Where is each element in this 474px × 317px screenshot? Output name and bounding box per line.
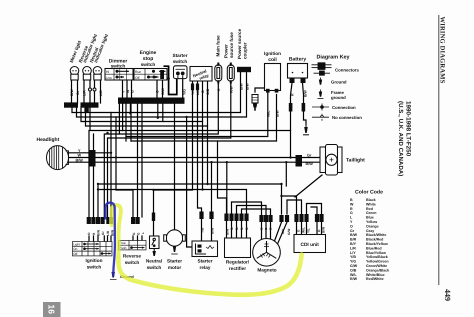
svg-text:WIRING DIAGRAMS: WIRING DIAGRAMS <box>439 17 446 84</box>
battery <box>288 57 308 112</box>
svg-text:L/B: L/B <box>106 230 110 236</box>
wire: starter relay left feed <box>187 117 192 247</box>
wire: neutral relay pin3 to bus H3 <box>202 81 204 190</box>
svg-text:Starter: Starter <box>172 53 187 58</box>
svg-text:R/W: R/W <box>350 277 358 281</box>
reverse switch terminals <box>131 217 140 224</box>
wire: reverse indicator leads <box>84 80 90 103</box>
engine stop switch <box>134 50 167 80</box>
wire: neutral switch lead <box>153 190 155 236</box>
wire: bus H3 <box>81 107 203 122</box>
svg-text:B/R: B/R <box>350 238 357 242</box>
svg-text:Y/B: Y/B <box>200 227 204 233</box>
svg-text:Gray: Gray <box>366 229 374 233</box>
reverse switch table <box>119 241 147 250</box>
power source fuse <box>227 63 234 84</box>
starter motor <box>164 230 186 254</box>
wire: ignition pin verticals <box>89 131 98 218</box>
neutral relay <box>190 67 212 82</box>
ignition coil <box>264 51 281 93</box>
svg-text:Black/Yellow: Black/Yellow <box>366 242 388 246</box>
svg-text:Ignition: Ignition <box>264 51 281 56</box>
svg-text:G: G <box>350 211 353 215</box>
main thick bus bar <box>118 98 185 104</box>
wire: magneto right pin to CDI 2 <box>287 200 302 214</box>
svg-text:Blue/Yellow: Blue/Yellow <box>366 251 386 255</box>
svg-text:Yellow: Yellow <box>366 220 377 224</box>
connector circles on leads <box>89 88 92 91</box>
wire: regulator-magneto nest 4 <box>242 209 271 215</box>
svg-text:Power source: Power source <box>237 28 242 59</box>
key no connection symbol <box>312 114 329 121</box>
svg-text:CDI unit: CDI unit <box>301 242 320 248</box>
svg-text:switch: switch <box>87 265 102 270</box>
wire: regulator stubs <box>227 221 247 238</box>
blue pen stroke <box>106 203 115 277</box>
svg-text:B/W: B/W <box>321 227 325 233</box>
svg-text:Power: Power <box>224 44 229 58</box>
svg-text:switch: switch <box>111 64 126 69</box>
svg-text:(U.S., U.K. AND CANADA): (U.S., U.K. AND CANADA) <box>397 101 404 176</box>
svg-text:B/W: B/W <box>210 228 214 234</box>
svg-text:Color Code: Color Code <box>355 190 383 196</box>
svg-text:Run: Run <box>135 70 141 74</box>
svg-text:B/W: B/W <box>304 90 308 98</box>
svg-text:W: W <box>78 154 82 158</box>
svg-text:Black/White: Black/White <box>366 233 386 237</box>
svg-text:coil: coil <box>268 57 277 63</box>
grey page tab 16 <box>43 302 61 317</box>
wire: regulator-magneto nest 2 <box>232 202 262 215</box>
power source coupler <box>237 67 251 72</box>
wire: ignition switch stubs to table <box>89 236 111 242</box>
wire: bus H5 battery R <box>90 107 291 131</box>
wire: starter switch right pin <box>182 79 184 98</box>
svg-text:Battery: Battery <box>289 57 306 63</box>
svg-text:Gr: Gr <box>76 90 80 95</box>
key frame ground symbol <box>318 90 324 99</box>
svg-text:Black/Red: Black/Red <box>366 238 383 242</box>
svg-text:B/W: B/W <box>70 89 74 97</box>
svg-text:Hi: Hi <box>106 70 109 74</box>
frame ground below battery <box>303 124 309 135</box>
svg-text:Headlight: Headlight <box>37 137 60 143</box>
wire: dimmer W to reverse switch G <box>116 158 133 218</box>
wire: regulator-magneto nest 3 <box>237 206 267 216</box>
lamp reverse indicator <box>83 67 92 81</box>
svg-text:Gr: Gr <box>307 154 312 158</box>
svg-text:L/R: L/R <box>83 90 87 96</box>
bar stub <box>84 107 88 112</box>
wire: CDI right pin long <box>311 207 317 214</box>
svg-text:rectifier: rectifier <box>229 266 246 271</box>
svg-text:O: O <box>350 224 353 228</box>
svg-text:coupler: coupler <box>243 42 248 59</box>
wire: CDI nest 3 <box>307 204 322 215</box>
svg-text:ground: ground <box>331 95 346 100</box>
svg-text:motor: motor <box>168 265 181 270</box>
CDI unit box <box>294 235 326 253</box>
wire: engine stop to starter switch U-link <box>164 66 177 94</box>
magneto terminals <box>259 215 289 222</box>
ground label near blue line <box>110 272 117 280</box>
spark plug <box>252 95 258 111</box>
svg-text:L: L <box>141 232 145 234</box>
svg-text:Ground: Ground <box>331 80 347 85</box>
svg-text:L/R: L/R <box>350 246 356 250</box>
ignition switch table <box>73 242 113 256</box>
svg-text:Starter: Starter <box>197 259 212 264</box>
svg-text:B/W: B/W <box>350 233 358 237</box>
svg-text:R/W: R/W <box>230 86 234 94</box>
wire: power source fuse to ignition switch <box>108 82 231 217</box>
yellow highlighter stroke <box>112 205 302 295</box>
svg-text:G/W: G/W <box>161 87 165 95</box>
svg-text:B/Y: B/Y <box>350 242 357 246</box>
wire: starter relay stubs <box>202 219 212 241</box>
svg-text:W: W <box>350 202 354 206</box>
svg-text:R: R <box>350 207 353 211</box>
svg-text:449: 449 <box>443 289 452 301</box>
wire: regulator pin1 nest <box>218 141 227 214</box>
neutral relay pin terminal blocks <box>191 84 194 91</box>
svg-text:White/Blue: White/Blue <box>366 273 385 277</box>
ignition switch terminals <box>87 217 113 224</box>
wire: CDI stubs <box>297 222 322 235</box>
svg-text:Black: Black <box>366 198 376 202</box>
svg-text:W/L: W/L <box>350 273 357 277</box>
color code table <box>350 190 389 282</box>
starter relay <box>199 212 213 220</box>
svg-text:B/W: B/W <box>240 83 244 91</box>
taillight <box>296 145 366 176</box>
indicator bulbs <box>70 67 102 92</box>
svg-text:Green: Green <box>366 211 376 215</box>
lamp meter light <box>70 67 79 81</box>
svg-text:switch: switch <box>147 265 162 270</box>
svg-text:Red/White: Red/White <box>366 277 384 281</box>
svg-text:B/W: B/W <box>96 230 100 236</box>
wire: main fuse to ignition switch <box>104 82 218 217</box>
junction dots <box>97 77 292 197</box>
svg-text:Gr: Gr <box>350 229 355 233</box>
main fuse <box>215 63 222 84</box>
diagram key <box>312 55 363 121</box>
dimmer switch <box>105 59 133 81</box>
svg-text:Blue: Blue <box>366 216 374 220</box>
wire: B/W junction down to starter relay <box>211 162 213 211</box>
svg-text:Regulator/: Regulator/ <box>226 260 250 265</box>
svg-text:G: G <box>131 90 135 93</box>
svg-text:Light: Light <box>73 242 80 246</box>
wire: starter motor leads <box>174 104 176 230</box>
regulator/rectifier box <box>225 238 251 258</box>
wire: tail B/W vertical to nest <box>285 162 287 186</box>
wire: coupler right drop to bus H2 <box>77 72 247 117</box>
starter switch <box>172 53 187 79</box>
svg-text:O: O <box>201 90 205 93</box>
svg-text:Ignition: Ignition <box>86 258 103 263</box>
wire: bar drop stubs <box>119 104 162 141</box>
engine stop switch right terminal <box>160 70 164 79</box>
wire: reverse switch stubs to table <box>133 236 142 241</box>
svg-text:Starter: Starter <box>167 259 182 264</box>
svg-text:G/B: G/B <box>206 88 210 95</box>
svg-text:Yellow/Green: Yellow/Green <box>366 260 389 264</box>
lamp neutral indicator <box>93 67 102 81</box>
svg-text:B/W: B/W <box>306 162 314 166</box>
rotated labels for bulbs <box>69 33 109 63</box>
svg-text:L/B: L/B <box>99 90 103 96</box>
svg-text:W/L: W/L <box>267 110 271 117</box>
svg-text:B/W: B/W <box>225 229 229 235</box>
svg-text:switch: switch <box>173 59 188 64</box>
magneto <box>253 239 281 267</box>
wire: dimmer switch pin stubs into bar <box>123 80 132 98</box>
wire: long verticals to ignition switch <box>111 113 116 218</box>
wire: long horizontal y189.5 to regulator pin5 <box>98 190 247 214</box>
svg-text:Green/White: Green/White <box>366 264 387 268</box>
wire: neutral relay pin2 to starter relay <box>198 81 202 212</box>
wire: spark plug lead <box>255 88 268 92</box>
wire: long horizontal y184 to magneto pin <box>98 184 282 214</box>
svg-text:Off: Off <box>135 76 140 80</box>
svg-text:B/W: B/W <box>246 83 250 91</box>
regulator terminals <box>224 214 248 222</box>
svg-text:Taillight: Taillight <box>346 158 365 164</box>
wire: headlight W / taillight Gr long <box>69 157 296 159</box>
svg-text:Magneto: Magneto <box>257 268 276 273</box>
svg-text:Main fuse: Main fuse <box>216 35 221 57</box>
svg-text:16: 16 <box>47 305 57 315</box>
wire: taillight stub B/W <box>302 161 320 163</box>
svg-text:Orange/Black: Orange/Black <box>366 268 389 272</box>
wire: taillight diagonal to CDI area <box>295 175 322 197</box>
svg-text:G/W: G/W <box>350 264 358 268</box>
svg-text:On: On <box>73 247 77 251</box>
wire: headlight B/W / taillight B/W long <box>69 161 296 163</box>
svg-text:Diagram Key: Diagram Key <box>317 55 350 61</box>
wire: neutral relay pin1 to neutral switch <box>154 81 193 190</box>
svg-text:relay: relay <box>200 265 211 270</box>
wire: taillight stub Gr <box>302 157 320 159</box>
svg-text:Off: Off <box>73 252 77 256</box>
wire: headlight Y <box>69 152 112 154</box>
headlight <box>37 137 96 170</box>
wire: battery B/W drop to frame ground <box>303 83 307 124</box>
wire: meter light leads <box>72 80 78 103</box>
svg-text:Y/G: Y/G <box>183 89 187 95</box>
wire: branch y196 to CDI pin1 <box>282 196 297 214</box>
wire: engine stop switch drops <box>157 80 163 98</box>
bar under indicator lights <box>81 102 99 107</box>
svg-text:switch: switch <box>141 62 156 67</box>
wire: magneto vertical leads <box>262 222 271 239</box>
wire: coupler left drop to bus H1 <box>72 72 241 113</box>
wire: magneto slant leads <box>275 222 288 244</box>
svg-text:Connection: Connection <box>332 105 356 110</box>
ignition switch pin labels <box>87 230 114 236</box>
svg-text:switch: switch <box>125 260 140 265</box>
svg-text:Yellow/Black: Yellow/Black <box>366 255 388 259</box>
svg-text:1990-1998 LT-F250: 1990-1998 LT-F250 <box>404 101 411 157</box>
wire: coil W/L run <box>126 93 268 142</box>
svg-text:W/L: W/L <box>301 227 305 233</box>
svg-text:Orange: Orange <box>366 224 379 228</box>
sidebar rule <box>438 15 440 285</box>
rotated model title <box>397 101 411 176</box>
CDI terminals <box>294 214 323 222</box>
thick black bars <box>64 98 185 113</box>
wire: bus H4 <box>86 107 208 126</box>
svg-text:Y/B: Y/B <box>350 255 356 259</box>
svg-text:O: O <box>156 90 160 93</box>
wire: reverse switch pins from bar <box>138 104 143 217</box>
key connection symbol <box>312 104 329 111</box>
svg-text:Low: Low <box>106 76 113 80</box>
wire: coil B/W run <box>131 95 277 142</box>
neutral switch terminal block <box>152 213 155 222</box>
wire: neutral indicator leads <box>95 80 101 103</box>
svg-text:Y/L: Y/L <box>306 228 310 233</box>
svg-text:source fuse: source fuse <box>229 32 234 58</box>
svg-text:B: B <box>350 198 353 202</box>
wire: regulator B/W pin from ground line <box>226 162 228 213</box>
neutral switch <box>150 236 160 256</box>
svg-text:B/W: B/W <box>76 158 84 162</box>
svg-text:Red: Red <box>366 207 373 211</box>
svg-text:No connection: No connection <box>332 115 362 120</box>
svg-text:G/W: G/W <box>287 229 291 235</box>
svg-text:Neutral: Neutral <box>146 259 162 264</box>
bar under meter light <box>64 102 78 107</box>
svg-text:O/B: O/B <box>350 268 357 272</box>
svg-text:Connectors: Connectors <box>335 68 359 73</box>
key connectors symbol <box>312 63 332 75</box>
wire: neutral relay pin4 to bus H4 <box>207 81 209 184</box>
svg-text:Blue/Red: Blue/Red <box>366 246 382 250</box>
small wire labels (rotated) top-left <box>70 83 308 118</box>
wire: battery R drop <box>291 83 293 158</box>
svg-text:B/W: B/W <box>276 110 280 118</box>
key ground symbol <box>319 78 322 85</box>
svg-text:Reverse: Reverse <box>123 254 142 259</box>
headlight connector <box>90 150 96 167</box>
svg-text:L/Y: L/Y <box>350 251 356 255</box>
svg-text:Y/G: Y/G <box>350 260 356 264</box>
svg-text:B/Y: B/Y <box>281 228 285 234</box>
svg-text:White: White <box>366 202 376 206</box>
